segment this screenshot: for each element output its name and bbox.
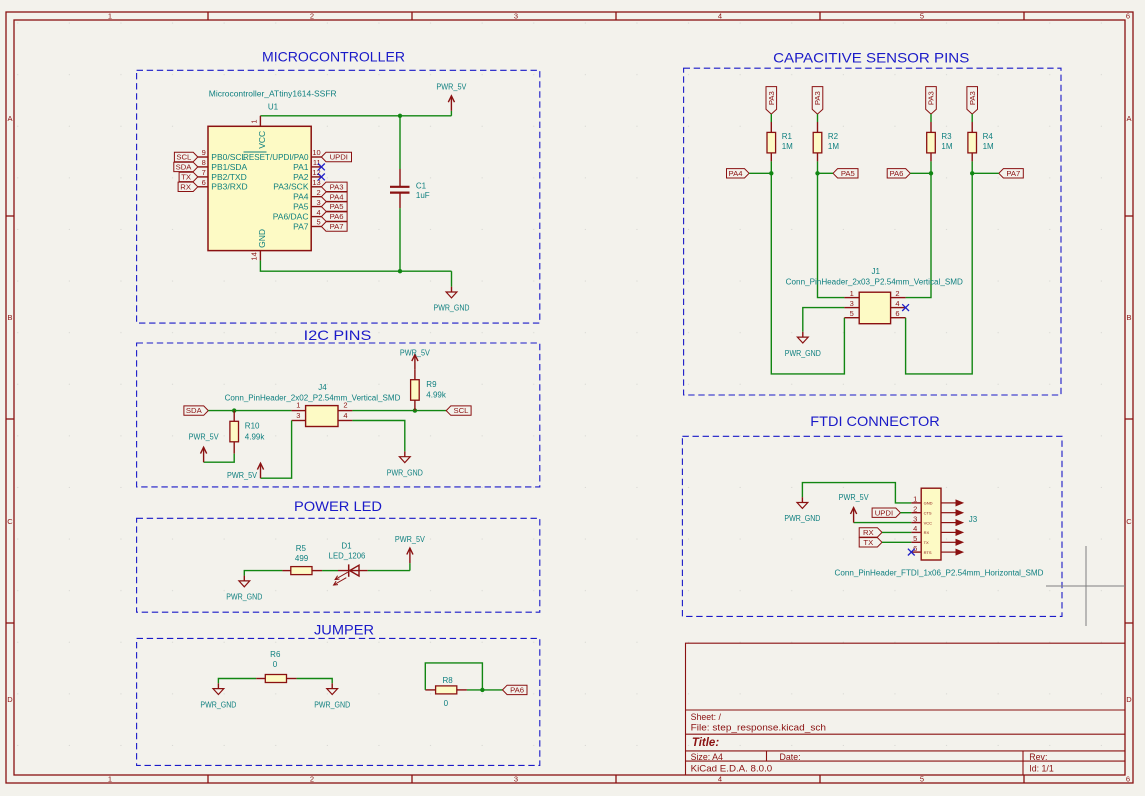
global label PA5 (sensor) bbox=[833, 169, 858, 178]
svg-text:Size: A4: Size: A4 bbox=[691, 752, 723, 762]
wire PA6 bbox=[910, 172, 931, 174]
wire PA3 to R4 bbox=[971, 114, 973, 122]
wire PA3 to R3 bbox=[930, 114, 932, 122]
J1 pin 3 bbox=[844, 299, 859, 308]
svg-text:A: A bbox=[7, 114, 12, 123]
svg-text:RESET/UPDI/PA0: RESET/UPDI/PA0 bbox=[243, 152, 309, 162]
svg-text:I2C PINS: I2C PINS bbox=[304, 327, 372, 343]
svg-text:4: 4 bbox=[317, 208, 321, 217]
pin 1 VCC bbox=[250, 116, 267, 149]
J1 pin 6 bbox=[891, 309, 906, 318]
svg-text:Date:: Date: bbox=[780, 752, 801, 762]
wire PA4 bbox=[749, 172, 771, 174]
svg-text:C: C bbox=[7, 517, 13, 526]
resistor R8 0 bbox=[425, 676, 467, 708]
svg-text:PWR_GND: PWR_GND bbox=[200, 699, 236, 709]
svg-text:PA3: PA3 bbox=[767, 91, 776, 105]
svg-text:3: 3 bbox=[317, 198, 321, 207]
wire J3 pin3 to PWR_5V bbox=[854, 522, 912, 524]
junction R1 bbox=[769, 171, 773, 175]
power symbol PWR_5V (R9) bbox=[400, 348, 430, 380]
resistor R2 1M bbox=[813, 122, 839, 161]
svg-text:Sheet: /: Sheet: / bbox=[691, 712, 722, 722]
global label PA6 (jumper) bbox=[503, 685, 528, 694]
svg-text:3: 3 bbox=[850, 299, 854, 308]
svg-text:VCC: VCC bbox=[924, 520, 933, 525]
svg-text:4: 4 bbox=[718, 12, 722, 21]
svg-text:4.99k: 4.99k bbox=[245, 433, 266, 442]
svg-text:RTS: RTS bbox=[924, 550, 932, 555]
svg-text:2: 2 bbox=[343, 401, 347, 410]
svg-text:B: B bbox=[1126, 313, 1131, 322]
svg-text:PA2: PA2 bbox=[293, 172, 309, 182]
svg-text:LED_1206: LED_1206 bbox=[329, 552, 366, 561]
section box FTDI CONNECTOR bbox=[682, 436, 1062, 616]
svg-text:PA6: PA6 bbox=[510, 686, 524, 695]
power symbol PWR_GND (J4 pin4) bbox=[387, 451, 423, 477]
power symbol PWR_GND (ftdi) bbox=[784, 497, 820, 523]
pin 14 GND bbox=[250, 229, 267, 261]
pin 13 PA3/SCK bbox=[273, 178, 321, 192]
svg-text:KiCad E.D.A. 8.0.0: KiCad E.D.A. 8.0.0 bbox=[691, 763, 773, 773]
wire R5 to D1 bbox=[322, 570, 338, 572]
wire PA7 bbox=[972, 172, 999, 174]
svg-text:PA1: PA1 bbox=[293, 162, 309, 172]
power symbol PWR_GND (led) bbox=[226, 576, 262, 602]
section box JUMPER bbox=[137, 638, 540, 765]
svg-text:3: 3 bbox=[296, 411, 300, 420]
wire C1 bottom bbox=[399, 208, 401, 271]
svg-text:6: 6 bbox=[895, 309, 899, 318]
svg-text:6: 6 bbox=[1126, 775, 1130, 784]
svg-text:PA4: PA4 bbox=[293, 192, 309, 202]
svg-text:1M: 1M bbox=[983, 142, 994, 151]
wire R4 to junction bbox=[971, 161, 973, 173]
pin 4 PA6/DAC bbox=[273, 208, 322, 222]
svg-text:PWR_5V: PWR_5V bbox=[395, 534, 425, 544]
svg-text:TX: TX bbox=[863, 538, 873, 547]
svg-text:SDA: SDA bbox=[186, 406, 203, 415]
svg-text:PWR_GND: PWR_GND bbox=[785, 348, 821, 358]
junction SDA/R10 bbox=[232, 408, 236, 412]
wire R3 to J1 pin2 bbox=[906, 173, 931, 297]
svg-text:5: 5 bbox=[850, 309, 854, 318]
cursor crosshair bbox=[1046, 546, 1125, 626]
wire J4 pin3 to PWR_5V bbox=[261, 421, 292, 479]
svg-text:4: 4 bbox=[718, 775, 722, 784]
svg-text:J1: J1 bbox=[871, 267, 880, 276]
J3 pin 2 CTS bbox=[911, 504, 963, 515]
global label PA6 bbox=[321, 212, 347, 221]
svg-text:PA5: PA5 bbox=[841, 169, 855, 178]
global label PA3 (column R1) bbox=[766, 87, 777, 115]
svg-text:SCL: SCL bbox=[176, 153, 192, 162]
svg-text:PA3: PA3 bbox=[927, 91, 936, 105]
section box CAPACITIVE SENSOR PINS bbox=[684, 68, 1061, 395]
no-connect J3 pin6 bbox=[908, 549, 915, 556]
svg-text:PWR_5V: PWR_5V bbox=[227, 470, 257, 480]
wire R3 to junction bbox=[930, 161, 932, 173]
svg-text:PA3: PA3 bbox=[968, 91, 977, 105]
pin 12 PA2 bbox=[293, 168, 321, 182]
global label PA7 (sensor) bbox=[999, 169, 1024, 178]
J1 pin 4 bbox=[891, 299, 906, 308]
svg-text:U1: U1 bbox=[268, 102, 279, 111]
junction R9 bbox=[413, 408, 417, 412]
svg-text:J4: J4 bbox=[318, 383, 327, 392]
svg-text:4: 4 bbox=[913, 524, 917, 533]
svg-text:B: B bbox=[7, 313, 12, 322]
global label PA3 bbox=[321, 182, 347, 191]
wire PWR_GND to R5 bbox=[244, 571, 282, 576]
resistor R9 4.99k bbox=[411, 380, 447, 411]
svg-text:RX: RX bbox=[180, 182, 191, 191]
wire J3 pin1 to PWR_GND bbox=[802, 483, 911, 503]
wire PA5 bbox=[818, 172, 834, 174]
svg-text:R10: R10 bbox=[245, 422, 260, 431]
global label SDA (i2c) bbox=[184, 406, 208, 415]
wire C1 top bbox=[399, 116, 401, 169]
svg-text:PA5: PA5 bbox=[330, 202, 344, 211]
svg-text:5: 5 bbox=[920, 12, 924, 21]
junction GND/C1 bbox=[398, 269, 402, 273]
svg-text:PA6: PA6 bbox=[889, 169, 903, 178]
svg-text:1M: 1M bbox=[941, 142, 952, 151]
power symbol PWR_GND (R6 left) bbox=[200, 683, 236, 709]
svg-text:PA7: PA7 bbox=[330, 222, 344, 231]
resistor R4 1M bbox=[968, 122, 994, 161]
no-connect J1 pin4 bbox=[902, 304, 909, 311]
wire R1 to junction bbox=[770, 161, 772, 173]
svg-text:Id: 1/1: Id: 1/1 bbox=[1029, 763, 1054, 773]
svg-text:2: 2 bbox=[317, 188, 321, 197]
wire R6 to right PWR_GND bbox=[297, 679, 333, 684]
J4 pin 3 bbox=[292, 411, 306, 420]
svg-text:D: D bbox=[7, 695, 13, 704]
svg-text:1M: 1M bbox=[782, 142, 793, 151]
section box MICROCONTROLLER bbox=[137, 70, 540, 323]
svg-text:Title:: Title: bbox=[692, 737, 719, 749]
svg-text:File: step_response.kicad_sch: File: step_response.kicad_sch bbox=[691, 723, 827, 733]
svg-text:R5: R5 bbox=[296, 544, 307, 553]
svg-text:PWR_5V: PWR_5V bbox=[436, 82, 466, 92]
IC U1 ATtiny1614 body bbox=[208, 126, 311, 250]
wire R2 to junction bbox=[817, 161, 819, 173]
svg-text:PA3/SCK: PA3/SCK bbox=[273, 182, 309, 192]
svg-text:4: 4 bbox=[343, 411, 347, 420]
svg-text:RX: RX bbox=[924, 530, 930, 535]
svg-text:2: 2 bbox=[310, 12, 314, 21]
global label TX (ftdi) bbox=[859, 538, 882, 547]
svg-text:PA4: PA4 bbox=[729, 169, 744, 178]
resistor R10 4.99k bbox=[230, 411, 265, 454]
svg-text:499: 499 bbox=[295, 554, 309, 563]
pin 8 PB1/SDA bbox=[198, 158, 248, 172]
svg-text:PWR_GND: PWR_GND bbox=[314, 699, 350, 709]
power symbol PWR_5V (top) bbox=[436, 82, 466, 116]
svg-text:PWR_GND: PWR_GND bbox=[784, 513, 820, 523]
pin 3 PA5 bbox=[293, 198, 321, 212]
no-connect PA2 bbox=[318, 174, 325, 181]
power symbol PWR_5V (R10) bbox=[189, 432, 219, 463]
pin 11 PA1 bbox=[293, 158, 321, 172]
svg-text:GND: GND bbox=[257, 229, 267, 248]
svg-text:PWR_5V: PWR_5V bbox=[189, 432, 219, 442]
svg-text:1: 1 bbox=[296, 401, 300, 410]
svg-text:3: 3 bbox=[514, 775, 518, 784]
svg-text:7: 7 bbox=[202, 168, 206, 177]
svg-text:PWR_GND: PWR_GND bbox=[387, 467, 423, 477]
global label PA6 (sensor) bbox=[887, 169, 910, 178]
global label PA7 bbox=[321, 222, 347, 231]
wire PA3 to R2 bbox=[817, 114, 819, 122]
power symbol PWR_5V (ftdi) bbox=[839, 492, 869, 523]
global label PA3 (column R3) bbox=[926, 87, 937, 115]
resistor R5 499 bbox=[282, 544, 322, 575]
svg-text:SDA: SDA bbox=[176, 163, 193, 172]
wire TX bbox=[882, 541, 911, 543]
svg-text:MICROCONTROLLER: MICROCONTROLLER bbox=[262, 49, 405, 65]
svg-text:5: 5 bbox=[920, 775, 924, 784]
global label TX bbox=[179, 172, 198, 181]
svg-text:POWER LED: POWER LED bbox=[294, 498, 382, 514]
J4 pin 1 bbox=[292, 401, 306, 411]
svg-text:UPDI: UPDI bbox=[330, 153, 348, 162]
svg-text:PB3/RXD: PB3/RXD bbox=[211, 182, 247, 192]
resistor R3 1M bbox=[927, 122, 953, 161]
power symbol PWR_5V (J4 pin3) bbox=[227, 463, 264, 480]
connector J4 body bbox=[306, 406, 338, 427]
svg-text:PA7: PA7 bbox=[293, 221, 309, 231]
svg-text:PA7: PA7 bbox=[1006, 169, 1020, 178]
J3 pin 5 TX bbox=[911, 534, 963, 545]
svg-text:2: 2 bbox=[310, 775, 314, 784]
svg-text:R6: R6 bbox=[270, 650, 281, 659]
wire R4 to J1 pin6 bbox=[906, 173, 973, 374]
connector J3 body bbox=[921, 488, 941, 560]
svg-text:1: 1 bbox=[108, 12, 112, 21]
svg-text:FTDI CONNECTOR: FTDI CONNECTOR bbox=[810, 413, 939, 429]
pin 7 PB2/TXD bbox=[198, 168, 247, 182]
svg-text:C: C bbox=[1126, 517, 1132, 526]
svg-text:2: 2 bbox=[895, 289, 899, 298]
svg-text:6: 6 bbox=[1126, 12, 1130, 21]
wire R1 to J1 pin5 bbox=[771, 173, 844, 374]
capacitor C1 1uF bbox=[390, 169, 430, 208]
global label PA3 (column R4) bbox=[967, 87, 978, 115]
wire R10 to PWR_5V bbox=[204, 454, 235, 463]
svg-text:R8: R8 bbox=[442, 676, 453, 685]
svg-text:Conn_PinHeader_FTDI_1x06_P2.54: Conn_PinHeader_FTDI_1x06_P2.54mm_Horizon… bbox=[835, 568, 1044, 577]
J3 pin 3 VCC bbox=[911, 514, 963, 525]
svg-text:R1: R1 bbox=[782, 132, 793, 141]
wire J1 pin3 to PWR_GND bbox=[803, 308, 845, 332]
pin 6 PB3/RXD bbox=[198, 178, 248, 192]
svg-text:VCC: VCC bbox=[257, 131, 267, 149]
svg-text:RX: RX bbox=[863, 528, 874, 537]
wire R8 bypass loop bbox=[425, 663, 482, 690]
svg-text:1M: 1M bbox=[828, 142, 839, 151]
svg-text:D: D bbox=[1126, 695, 1132, 704]
svg-text:10: 10 bbox=[312, 148, 320, 157]
svg-text:5: 5 bbox=[913, 534, 917, 543]
J1 pin 1 bbox=[844, 289, 859, 298]
global label PA5 bbox=[321, 202, 347, 211]
junction R3 bbox=[929, 171, 933, 175]
power symbol PWR_GND (R6 right) bbox=[314, 683, 350, 709]
J1 pin 5 bbox=[844, 309, 859, 318]
svg-text:5: 5 bbox=[317, 218, 321, 227]
svg-text:R4: R4 bbox=[983, 132, 994, 141]
wire riser PWR_5V (led) bbox=[409, 563, 411, 571]
wire RX bbox=[882, 531, 911, 533]
svg-text:PA3: PA3 bbox=[813, 91, 822, 105]
svg-text:14: 14 bbox=[250, 252, 259, 260]
power symbol PWR_GND (J1) bbox=[785, 332, 821, 358]
svg-text:CTS: CTS bbox=[924, 510, 932, 515]
svg-text:GND: GND bbox=[924, 501, 933, 506]
svg-text:PWR_GND: PWR_GND bbox=[434, 303, 470, 313]
svg-text:R2: R2 bbox=[828, 132, 839, 141]
svg-text:PA6/DAC: PA6/DAC bbox=[273, 212, 309, 222]
wire GND bottom bbox=[260, 260, 451, 271]
svg-text:4: 4 bbox=[895, 299, 899, 308]
wire R2 to J1 pin1 bbox=[818, 173, 845, 297]
J3 pin 1 GND bbox=[911, 495, 963, 506]
global label SCL (i2c) bbox=[446, 406, 471, 415]
svg-text:9: 9 bbox=[202, 148, 206, 157]
global label PA4 bbox=[321, 192, 347, 201]
svg-text:PB0/SCL: PB0/SCL bbox=[211, 152, 246, 162]
svg-text:SCL: SCL bbox=[453, 406, 469, 415]
pin 9 PB0/SCL bbox=[198, 148, 247, 162]
title block bbox=[686, 643, 1126, 775]
wire SDA to J4 pin1 bbox=[208, 410, 291, 412]
wire PA3 to R1 bbox=[770, 114, 772, 122]
global label SDA bbox=[174, 162, 198, 171]
svg-text:J3: J3 bbox=[969, 515, 978, 524]
svg-text:JUMPER: JUMPER bbox=[314, 622, 374, 638]
svg-text:PA5: PA5 bbox=[293, 202, 309, 212]
junction R8/PA6 bbox=[480, 688, 484, 692]
wire J4 pin4 to PWR_GND bbox=[352, 421, 404, 452]
pin 5 PA7 bbox=[293, 218, 321, 232]
power symbol PWR_5V (led) bbox=[395, 534, 425, 563]
svg-text:TX: TX bbox=[181, 173, 191, 182]
svg-text:PWR_5V: PWR_5V bbox=[400, 348, 430, 358]
LED D1 LED_1206 bbox=[329, 542, 368, 586]
svg-text:Rev:: Rev: bbox=[1029, 752, 1047, 762]
overline on RESET bbox=[244, 151, 267, 153]
global label PA3 (column R2) bbox=[812, 87, 823, 115]
svg-text:1: 1 bbox=[108, 775, 112, 784]
svg-text:1uF: 1uF bbox=[416, 191, 430, 200]
global label RX (ftdi) bbox=[859, 528, 882, 537]
svg-text:D1: D1 bbox=[341, 542, 352, 551]
section box I2C PINS bbox=[137, 343, 540, 487]
pin 10 RESET/UPDI/PA0 bbox=[243, 148, 321, 162]
svg-text:TX: TX bbox=[924, 540, 929, 545]
svg-text:Microcontroller_ATtiny1614-SSF: Microcontroller_ATtiny1614-SSFR bbox=[209, 89, 337, 98]
svg-text:UPDI: UPDI bbox=[875, 508, 893, 517]
svg-text:3: 3 bbox=[913, 514, 917, 523]
svg-text:Conn_PinHeader_2x03_P2.54mm_Ve: Conn_PinHeader_2x03_P2.54mm_Vertical_SMD bbox=[786, 278, 963, 287]
J4 pin 4 bbox=[338, 411, 352, 420]
pin 2 PA4 bbox=[293, 188, 321, 202]
svg-text:4.99k: 4.99k bbox=[426, 390, 447, 399]
svg-text:PA4: PA4 bbox=[330, 192, 345, 201]
global label UPDI (ftdi) bbox=[872, 508, 900, 517]
svg-text:6: 6 bbox=[202, 178, 206, 187]
svg-text:A: A bbox=[1126, 114, 1131, 123]
svg-text:CAPACITIVE SENSOR PINS: CAPACITIVE SENSOR PINS bbox=[773, 50, 969, 66]
global label SCL bbox=[174, 152, 197, 161]
resistor R6 0 bbox=[256, 650, 296, 682]
junction VCC/C1 bbox=[398, 114, 402, 118]
svg-text:1: 1 bbox=[850, 289, 854, 298]
svg-text:3: 3 bbox=[514, 12, 518, 21]
wire UPDI bbox=[900, 512, 911, 514]
junction R4 bbox=[970, 171, 974, 175]
power symbol PWR_GND (bottom) bbox=[434, 271, 470, 313]
svg-text:PA3: PA3 bbox=[330, 182, 344, 191]
svg-text:PA6: PA6 bbox=[330, 212, 344, 221]
global label UPDI bbox=[321, 152, 351, 161]
svg-text:0: 0 bbox=[273, 660, 278, 669]
svg-text:PWR_5V: PWR_5V bbox=[839, 492, 869, 502]
resistor R1 1M bbox=[767, 122, 793, 161]
svg-text:0: 0 bbox=[444, 699, 449, 708]
svg-text:PB1/SDA: PB1/SDA bbox=[211, 162, 247, 172]
global label PA4 (sensor) bbox=[727, 169, 750, 178]
wire left PWR_GND to R6 bbox=[218, 679, 256, 684]
svg-text:C1: C1 bbox=[416, 181, 427, 190]
J3 pin 4 RX bbox=[911, 524, 963, 535]
svg-text:1: 1 bbox=[913, 495, 917, 504]
J4 pin 2 bbox=[338, 401, 352, 411]
global label RX bbox=[178, 182, 198, 191]
svg-text:PWR_GND: PWR_GND bbox=[226, 592, 262, 602]
svg-text:1: 1 bbox=[250, 119, 259, 123]
wire R8 to PA6 bbox=[467, 689, 503, 691]
svg-text:R3: R3 bbox=[941, 132, 952, 141]
connector J1 body bbox=[859, 292, 890, 324]
svg-text:8: 8 bbox=[202, 158, 206, 167]
svg-text:R9: R9 bbox=[426, 380, 437, 389]
svg-text:PB2/TXD: PB2/TXD bbox=[211, 172, 246, 182]
wire VCC top bbox=[260, 115, 451, 117]
section box POWER LED bbox=[137, 518, 540, 612]
J1 pin 2 bbox=[891, 289, 906, 298]
no-connect PA1 bbox=[318, 164, 325, 171]
svg-text:Conn_PinHeader_2x02_P2.54mm_Ve: Conn_PinHeader_2x02_P2.54mm_Vertical_SMD bbox=[225, 393, 401, 402]
wire J4 pin2 to SCL bbox=[352, 410, 446, 412]
svg-text:2: 2 bbox=[913, 504, 917, 513]
junction R2 bbox=[815, 171, 819, 175]
wire D1 to PWR_5V bbox=[368, 570, 410, 572]
svg-text:6: 6 bbox=[913, 544, 917, 553]
J3 pin 6 RTS bbox=[911, 544, 963, 555]
